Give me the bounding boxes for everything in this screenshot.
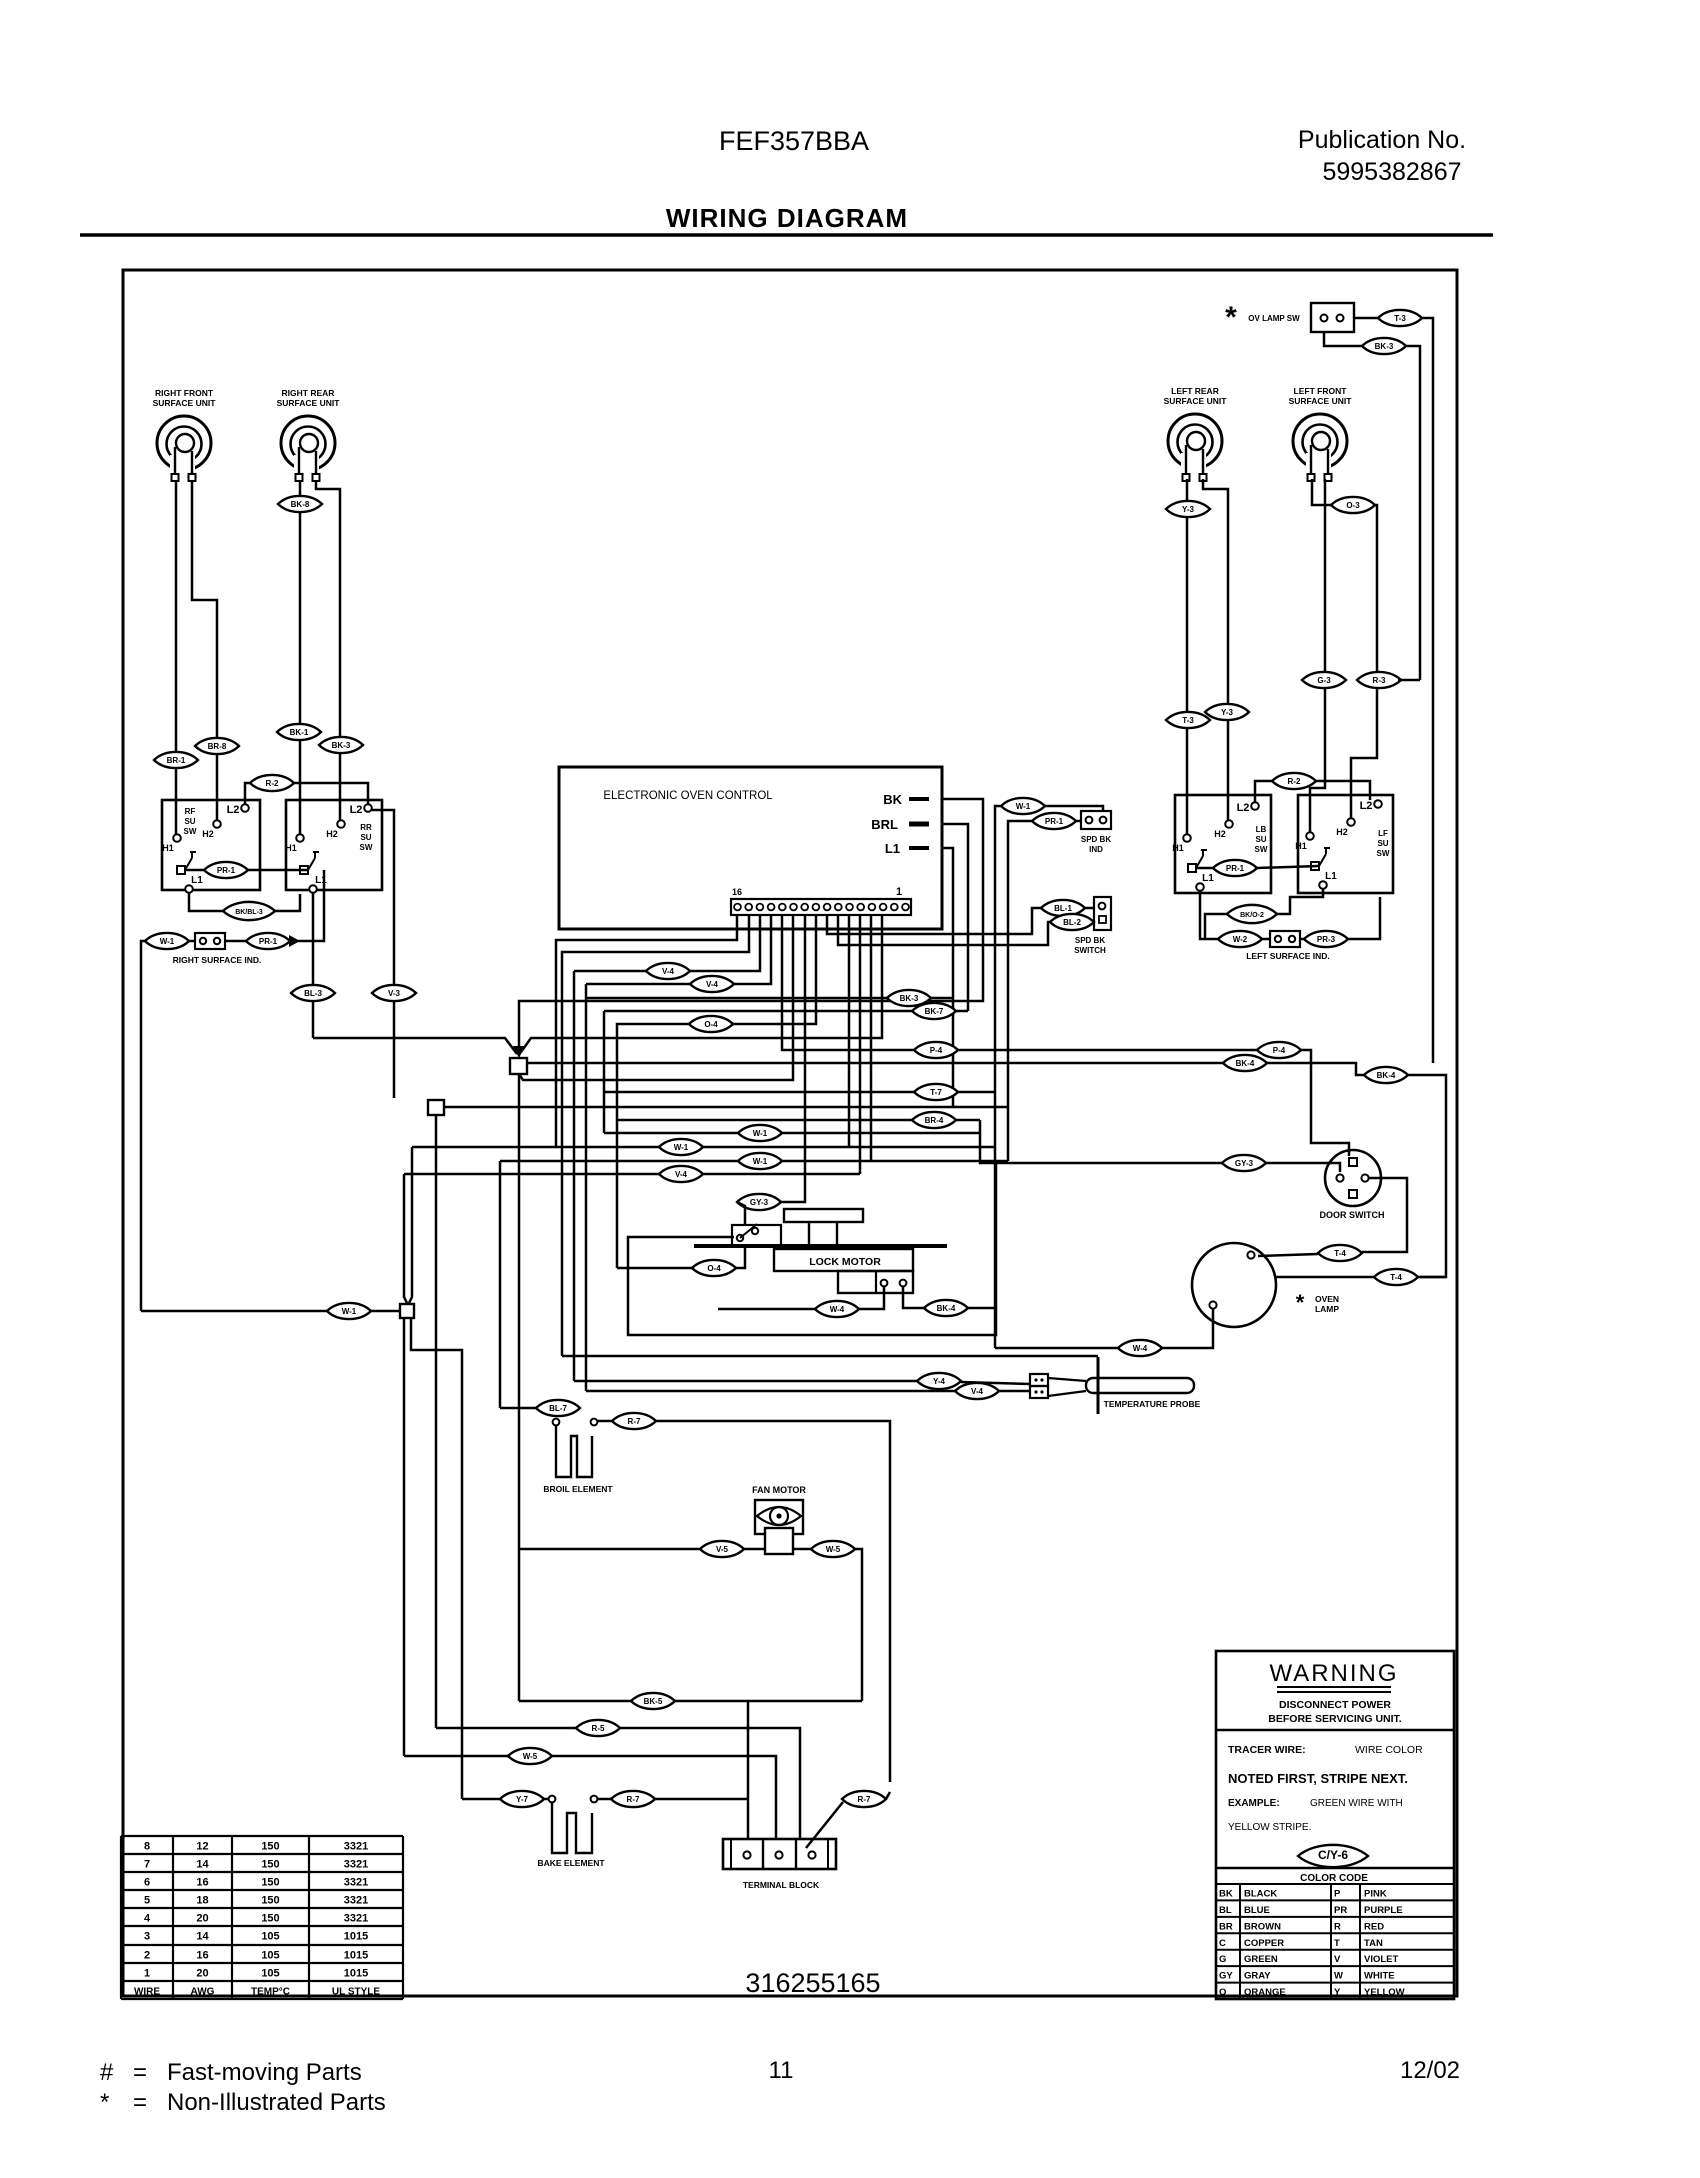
svg-text:W-4: W-4: [830, 1305, 845, 1314]
connector BK-3 row: [887, 990, 931, 1006]
svg-text:SW: SW: [184, 827, 197, 836]
svg-text:H2: H2: [1214, 829, 1226, 839]
svg-text:P: P: [1334, 1889, 1341, 1900]
connector W-1 row a: [738, 1125, 782, 1141]
EOC terminal strip pins 16..1: [731, 899, 911, 915]
bake element: [552, 1803, 592, 1853]
svg-text:BK-4: BK-4: [937, 1304, 956, 1313]
svg-text:WIRE: WIRE: [134, 1987, 160, 1998]
wire BL-7 from bus: [500, 1407, 536, 1410]
svg-text:COPPER: COPPER: [1244, 1938, 1284, 1949]
svg-text:OV LAMP SW: OV LAMP SW: [1248, 314, 1300, 323]
connector GY-3 lock: [737, 1194, 781, 1210]
wire row W-1 b: [412, 1146, 995, 1149]
svg-text:3321: 3321: [344, 1859, 368, 1871]
svg-text:T-4: T-4: [1334, 1249, 1346, 1258]
svg-text:1015: 1015: [344, 1931, 368, 1943]
wire RR unit left lead to H1: [299, 481, 302, 834]
wire LF unit left lead jog: [1312, 479, 1331, 505]
svg-text:=: =: [133, 2089, 147, 2116]
switch LF L1 contact lever: [1311, 862, 1319, 870]
svg-text:TAN: TAN: [1364, 1938, 1383, 1949]
svg-text:R-7: R-7: [628, 1417, 641, 1426]
svg-text:G: G: [1219, 1954, 1226, 1965]
svg-text:LEFT REAR: LEFT REAR: [1171, 386, 1219, 396]
connector PR-1 left pair: [204, 862, 248, 878]
svg-text:V-4: V-4: [675, 1170, 688, 1179]
wire V-4 to connector block: [586, 1390, 955, 1393]
connector GY-3 door: [1222, 1155, 1266, 1171]
wire O-3 down to R-3: [1375, 505, 1377, 672]
svg-text:18: 18: [196, 1895, 208, 1907]
svg-text:W-1: W-1: [1016, 802, 1031, 811]
connector W-1 junction: [327, 1303, 371, 1319]
left front surface unit coil: [1289, 386, 1353, 481]
connector W-2 left surface ind: [1218, 931, 1262, 947]
connector O-4 lock: [692, 1260, 736, 1276]
wire bus 412 to junction J3: [409, 1147, 412, 1303]
connector BK-4 right: [1364, 1067, 1408, 1083]
svg-text:14: 14: [196, 1859, 209, 1871]
svg-text:7: 7: [144, 1859, 150, 1871]
wire BK-3 bus to R-3: [1398, 679, 1420, 682]
wire O-4 row to lock bar: [617, 1267, 692, 1270]
wire row W-1 a: [604, 1132, 980, 1135]
lock motor terminal box: [838, 1271, 913, 1293]
svg-text:SPD BK: SPD BK: [1075, 936, 1105, 945]
wire BK-4 to right loop: [968, 1307, 996, 1310]
wire PR-1 to LF switch contact: [1257, 866, 1319, 868]
svg-text:GREEN WIRE WITH: GREEN WIRE WITH: [1310, 1798, 1403, 1809]
fan motor box: [755, 1500, 803, 1534]
wire door switch right to T-4: [1362, 1178, 1407, 1252]
wire door loop down to lock bottom: [628, 1163, 996, 1335]
connector R-2 right pair: [1272, 773, 1316, 789]
wire L1 LF down through BK/O-2: [1276, 889, 1323, 914]
svg-text:Y: Y: [1334, 1987, 1341, 1998]
wire V-4 bus down: [573, 971, 576, 1381]
svg-text:W-4: W-4: [1133, 1344, 1148, 1353]
wire RR unit right lead to H2: [316, 481, 340, 820]
svg-text:L1: L1: [1202, 873, 1214, 884]
svg-text:L1: L1: [885, 841, 900, 856]
wire W-5 row: [404, 1755, 508, 1758]
svg-text:1: 1: [144, 1968, 150, 1980]
connector R-3: [1357, 672, 1401, 688]
svg-text:SU: SU: [1255, 835, 1266, 844]
svg-text:V-4: V-4: [971, 1387, 984, 1396]
connector PR-1 spd bk ind: [1032, 813, 1076, 829]
svg-text:20: 20: [196, 1968, 208, 1980]
SPD BK IND box: [1081, 811, 1111, 829]
svg-text:*: *: [1225, 301, 1237, 334]
svg-text:SU: SU: [1377, 839, 1388, 848]
connector BL-3: [291, 985, 335, 1001]
svg-text:ELECTRONIC OVEN CONTROL: ELECTRONIC OVEN CONTROL: [603, 790, 773, 802]
svg-text:O: O: [1219, 1987, 1226, 1998]
svg-text:316255165: 316255165: [745, 1968, 880, 1998]
terminal block: [723, 1839, 836, 1869]
wire BK-5 to terminal block: [675, 1700, 862, 1703]
wire L2 jumper right pair: [1255, 781, 1272, 802]
switch LB L1 contact lever: [1188, 864, 1196, 872]
wire BL-2 to switch: [1092, 921, 1095, 924]
svg-text:BK-3: BK-3: [900, 994, 919, 1003]
wire bus 404 to junction J3: [404, 1174, 407, 1303]
wire L1 RF to BK/BL-3: [189, 893, 227, 911]
wire BK-4 row continue: [1267, 1063, 1364, 1075]
wire T-4 to right bus: [1418, 1276, 1446, 1279]
svg-text:BK-3: BK-3: [332, 741, 351, 750]
wire R-5 to terminal block: [620, 1728, 800, 1839]
svg-text:DISCONNECT POWER: DISCONNECT POWER: [1279, 1699, 1391, 1711]
svg-text:C/Y-6: C/Y-6: [1318, 1848, 1348, 1862]
wire J3 branch to bake bus: [411, 1318, 462, 1799]
svg-text:12/02: 12/02: [1400, 2057, 1460, 2084]
wire R-5 row: [436, 1727, 576, 1730]
wire lock motor BK-4: [903, 1287, 924, 1308]
lock motor bar: [694, 1244, 947, 1248]
svg-text:V-5: V-5: [716, 1545, 729, 1554]
svg-text:RIGHT FRONT: RIGHT FRONT: [155, 388, 214, 398]
connector T-4 lamp: [1374, 1269, 1418, 1285]
junction J3 box: [400, 1304, 414, 1318]
lock motor switch box: [732, 1225, 781, 1246]
door switch body: [1325, 1150, 1381, 1206]
svg-text:H2: H2: [326, 829, 338, 839]
svg-text:R-7: R-7: [858, 1795, 871, 1804]
connector Y-3 left rear: [1166, 501, 1210, 517]
connector BR-4 row: [912, 1112, 956, 1128]
connector BK/BL-3: [223, 902, 275, 920]
connector V-4 probe: [955, 1383, 999, 1399]
svg-text:BK-5: BK-5: [644, 1697, 663, 1706]
svg-text:BEFORE SERVICING UNIT.: BEFORE SERVICING UNIT.: [1268, 1713, 1401, 1725]
svg-text:*: *: [1296, 1290, 1305, 1315]
svg-text:BR-4: BR-4: [925, 1116, 944, 1125]
svg-text:W: W: [1334, 1971, 1343, 1982]
svg-text:L2: L2: [1360, 800, 1373, 812]
connector Y-7 bake: [500, 1791, 544, 1807]
svg-text:T: T: [1334, 1938, 1340, 1949]
svg-text:FAN MOTOR: FAN MOTOR: [752, 1485, 806, 1495]
svg-text:L1: L1: [315, 875, 327, 886]
connector Y-3 lower: [1205, 704, 1249, 720]
wire PR-1 to ind box: [1075, 820, 1081, 823]
wire terminal 14 drop to V-4 row: [574, 915, 760, 971]
svg-text:UL STYLE: UL STYLE: [332, 1987, 380, 1998]
connector W-1 spd bk ind: [1001, 798, 1045, 814]
svg-text:O-3: O-3: [1346, 501, 1360, 510]
svg-text:TEMP°C: TEMP°C: [251, 1987, 290, 1998]
oven lamp bulb: [1192, 1243, 1276, 1327]
connector G-3: [1302, 672, 1346, 688]
svg-text:5: 5: [144, 1895, 150, 1907]
warning box: [1216, 1651, 1454, 1999]
svg-text:AWG: AWG: [191, 1987, 215, 1998]
wire row V-4 d: [404, 1173, 860, 1176]
svg-text:SW: SW: [360, 843, 373, 852]
wire bus 604 down: [603, 1011, 606, 1133]
svg-text:Fast-moving Parts: Fast-moving Parts: [167, 2059, 362, 2086]
wire PR-1 to RR switch contact: [247, 869, 308, 872]
wire EOC BK to right: [519, 799, 983, 1048]
svg-text:W-1: W-1: [160, 937, 175, 946]
svg-text:V-4: V-4: [706, 980, 719, 989]
wire terminal 8 drop: [848, 915, 851, 1147]
wire terminal 15 drop: [562, 915, 749, 1356]
connector V-4 row d: [659, 1166, 703, 1182]
wire R-2 to L2 LF switch: [1316, 781, 1370, 800]
wire row BR-4: [617, 1119, 980, 1122]
svg-text:105: 105: [261, 1968, 279, 1980]
svg-text:SURFACE UNIT: SURFACE UNIT: [1164, 396, 1228, 406]
wire LF unit right lead through G-3: [1310, 479, 1325, 832]
connector V-4 row2: [690, 976, 734, 992]
svg-text:YELLOW STRIPE.: YELLOW STRIPE.: [1228, 1822, 1311, 1833]
svg-text:3321: 3321: [344, 1877, 368, 1889]
junction J1 box: [510, 1058, 527, 1074]
svg-text:150: 150: [261, 1841, 279, 1853]
connector R-5: [576, 1720, 620, 1736]
svg-text:105: 105: [261, 1931, 279, 1943]
connector PR-1 right surface ind: [246, 933, 290, 949]
svg-text:RF: RF: [185, 807, 196, 816]
svg-text:150: 150: [261, 1859, 279, 1871]
wire W-1 to left bus: [141, 941, 146, 1311]
svg-text:PR-1: PR-1: [1226, 864, 1245, 873]
wire oven lamp to T-4 right: [1274, 1276, 1374, 1279]
svg-text:1015: 1015: [344, 1968, 368, 1980]
svg-text:TRACER WIRE:: TRACER WIRE:: [1228, 1744, 1306, 1756]
connector T-4 door: [1318, 1245, 1362, 1261]
svg-text:SURFACE UNIT: SURFACE UNIT: [1289, 396, 1353, 406]
connector W-5 fan: [811, 1541, 855, 1557]
svg-text:V: V: [1334, 1954, 1341, 1965]
wire BL-2 to terminal 10: [838, 915, 1051, 945]
wire R-2 to L2 of RR switch: [293, 783, 368, 804]
svg-text:LAMP: LAMP: [1315, 1304, 1339, 1314]
junction J2 box: [428, 1100, 444, 1115]
wire J3 down to W-5 row: [403, 1318, 406, 1756]
switch RF L1 contact lever: [177, 866, 185, 874]
svg-text:*: *: [100, 2089, 109, 2116]
svg-text:ORANGE: ORANGE: [1244, 1987, 1286, 1998]
oven lamp switch OV LAMP SW box: [1311, 303, 1354, 332]
svg-text:BK/BL-3: BK/BL-3: [235, 909, 263, 916]
wire GY-3 to lock switch: [737, 1202, 745, 1224]
wire terminal 11 drop: [519, 915, 793, 1080]
SPD BK SWITCH box: [1094, 897, 1111, 930]
svg-text:BAKE ELEMENT: BAKE ELEMENT: [537, 1858, 605, 1868]
broil element: [556, 1426, 592, 1477]
wire row BK-3: [586, 997, 953, 1000]
connector W-1 row c: [738, 1153, 782, 1169]
bake element terminal left: [549, 1796, 556, 1803]
svg-text:14: 14: [196, 1931, 209, 1943]
svg-text:150: 150: [261, 1913, 279, 1925]
svg-text:YELLOW: YELLOW: [1364, 1987, 1405, 1998]
svg-text:4: 4: [144, 1913, 151, 1925]
svg-text:Y-3: Y-3: [1182, 505, 1195, 514]
svg-text:WIRE COLOR: WIRE COLOR: [1355, 1744, 1423, 1756]
svg-text:=: =: [133, 2059, 147, 2086]
wire W-4 left: [995, 1347, 1118, 1350]
svg-text:PR-1: PR-1: [1045, 817, 1064, 826]
wire temp probe row Y-4: [574, 1380, 917, 1383]
broil element terminal right: [591, 1419, 598, 1426]
svg-text:GRAY: GRAY: [1244, 1971, 1271, 1982]
svg-text:VIOLET: VIOLET: [1364, 1954, 1399, 1965]
wire terminal 10 drop to lock switch: [781, 915, 805, 1202]
svg-text:H1: H1: [1295, 841, 1307, 851]
wire terminal 6 drop: [870, 915, 873, 1161]
svg-text:L2: L2: [350, 804, 363, 816]
connector BK-8: [278, 496, 322, 512]
svg-text:TEMPERATURE PROBE: TEMPERATURE PROBE: [1104, 1399, 1201, 1409]
svg-text:DOOR SWITCH: DOOR SWITCH: [1320, 1210, 1385, 1220]
bake element terminal right: [591, 1796, 598, 1803]
wire W-1 left down: [995, 806, 1002, 1348]
wire terminal 12 drop to P-4 row: [782, 915, 914, 1050]
temp probe connector blocks: [1030, 1374, 1048, 1386]
svg-text:V-4: V-4: [662, 967, 675, 976]
svg-text:Y-4: Y-4: [933, 1377, 946, 1386]
wire W-1 to ind box: [1044, 806, 1103, 812]
wire terminal 16 drop: [556, 915, 737, 1147]
svg-text:O-4: O-4: [704, 1020, 718, 1029]
wire J2 row to L1 bus: [444, 1106, 1008, 1109]
wire R-7 bake to terminal block: [655, 1798, 748, 1801]
svg-text:BLUE: BLUE: [1244, 1905, 1270, 1916]
svg-text:PR: PR: [1334, 1905, 1347, 1916]
temp probe body: [1086, 1378, 1194, 1393]
svg-text:Non-Illustrated Parts: Non-Illustrated Parts: [167, 2089, 386, 2116]
svg-text:SPD BK: SPD BK: [1081, 835, 1111, 844]
svg-text:W-5: W-5: [826, 1545, 841, 1554]
svg-text:BL-2: BL-2: [1063, 918, 1081, 927]
svg-text:LEFT FRONT: LEFT FRONT: [1294, 386, 1348, 396]
switch RR L1 contact lever: [300, 866, 308, 874]
wire row W-1 c: [500, 1160, 1008, 1163]
svg-text:L2: L2: [227, 804, 240, 816]
svg-text:O-4: O-4: [707, 1264, 721, 1273]
wire R-7 right diagonal to block: [806, 1802, 843, 1848]
connector Y-4 probe: [917, 1373, 961, 1389]
wire J2 down to R-5 row: [435, 1115, 438, 1728]
wire W-1 to junction J3: [371, 1310, 400, 1313]
wire L1 LB down to left surface ind: [1200, 891, 1219, 939]
wire RR contact down to right surface ind: [289, 870, 324, 941]
fan motor lower box: [765, 1528, 793, 1554]
right rear surface switch box RR SU SW: [286, 800, 382, 890]
svg-text:R-7: R-7: [627, 1795, 640, 1804]
svg-text:P-4: P-4: [1273, 1046, 1286, 1055]
wire fan V-5 row: [519, 1548, 700, 1551]
svg-text:R-2: R-2: [266, 779, 279, 788]
wire left bus to W-1 junction: [141, 1310, 327, 1313]
svg-text:GY-3: GY-3: [1235, 1159, 1254, 1168]
wire to junction J1 left feeder: [313, 1038, 517, 1054]
svg-text:H2: H2: [1336, 827, 1348, 837]
svg-text:3321: 3321: [344, 1841, 368, 1853]
wire T-3 to right bus: [1422, 318, 1433, 1063]
connector O-4 row: [689, 1016, 733, 1032]
connector V-3: [372, 985, 416, 1001]
wire row BK-7: [604, 1010, 968, 1013]
lock motor cam plate: [784, 1209, 863, 1222]
svg-text:H1: H1: [285, 843, 297, 853]
svg-text:EXAMPLE:: EXAMPLE:: [1228, 1798, 1280, 1809]
svg-text:T-3: T-3: [1394, 314, 1406, 323]
connector T-3: [1378, 310, 1422, 326]
wire gauge table: [121, 1835, 403, 1837]
connector BK-4 lock: [924, 1300, 968, 1316]
svg-text:TERMINAL BLOCK: TERMINAL BLOCK: [743, 1880, 820, 1890]
wire terminal 7 drop: [859, 915, 862, 1174]
svg-text:P-4: P-4: [930, 1046, 943, 1055]
svg-text:R-2: R-2: [1288, 777, 1301, 786]
svg-text:R-5: R-5: [592, 1724, 605, 1733]
svg-text:16: 16: [196, 1877, 208, 1889]
color code table: [1216, 1867, 1454, 1869]
wire L2 RR switch to junction J2 bus: [372, 810, 394, 1098]
main border frame: [123, 270, 1457, 1996]
connector BK-1: [277, 724, 321, 740]
svg-text:BK/O-2: BK/O-2: [1240, 912, 1264, 919]
svg-text:L2: L2: [1237, 802, 1250, 814]
svg-text:PR-1: PR-1: [259, 937, 278, 946]
wire W-5 to terminal block: [552, 1756, 776, 1839]
wire BL-1 to switch: [1084, 907, 1094, 910]
connector W-4 lock: [815, 1301, 859, 1317]
connector PR-1 right pair: [1213, 860, 1257, 876]
svg-text:SWITCH: SWITCH: [1074, 946, 1106, 955]
svg-text:150: 150: [261, 1895, 279, 1907]
svg-text:1: 1: [896, 886, 902, 898]
connector BR-1: [154, 752, 198, 768]
svg-text:BROIL ELEMENT: BROIL ELEMENT: [543, 1484, 613, 1494]
svg-text:BK-1: BK-1: [290, 728, 309, 737]
svg-text:BK: BK: [1219, 1889, 1233, 1900]
wire lock motor W-4: [859, 1287, 884, 1309]
svg-text:Y-3: Y-3: [1221, 708, 1234, 717]
svg-text:C: C: [1219, 1938, 1226, 1949]
svg-text:GREEN: GREEN: [1244, 1954, 1278, 1965]
wire BK-3 down right side: [1405, 346, 1420, 680]
connector BK/O-2: [1227, 905, 1277, 923]
svg-text:RIGHT SURFACE IND.: RIGHT SURFACE IND.: [173, 955, 262, 965]
wire O-4 row left down: [617, 1024, 689, 1268]
svg-text:GY: GY: [1219, 1971, 1233, 1982]
svg-text:2: 2: [144, 1950, 150, 1962]
wire oven lamp bottom to W-4: [1162, 1309, 1213, 1348]
wire J1 output row: [527, 1062, 1223, 1065]
svg-text:SURFACE UNIT: SURFACE UNIT: [153, 398, 217, 408]
right surface indicator lamp box: [188, 940, 195, 943]
svg-text:PINK: PINK: [1364, 1889, 1387, 1900]
wire LB unit right lead to H2: [1203, 479, 1228, 820]
wire V-4 bus2 down: [585, 984, 588, 1391]
wire bus 500 down to broil: [499, 1161, 502, 1408]
svg-text:Y-7: Y-7: [516, 1795, 529, 1804]
svg-text:LF: LF: [1378, 829, 1388, 838]
svg-text:#: #: [100, 2059, 114, 2086]
right rear surface unit coil: [277, 388, 341, 481]
svg-text:WARNING: WARNING: [1269, 1660, 1398, 1687]
wire J1 down to fan and BK-5 row: [518, 1074, 521, 1701]
svg-text:WIRING DIAGRAM: WIRING DIAGRAM: [666, 203, 908, 233]
